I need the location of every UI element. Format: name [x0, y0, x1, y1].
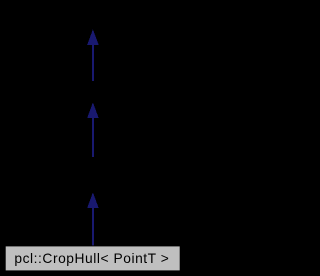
svg-text:pcl::CropHull< PointT >: pcl::CropHull< PointT >	[14, 251, 169, 266]
